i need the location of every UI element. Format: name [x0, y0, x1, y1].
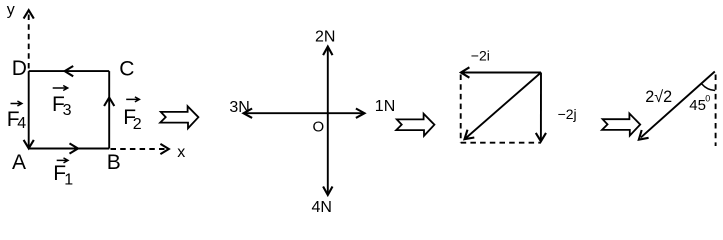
svg-text:D: D	[12, 57, 27, 80]
svg-text:B: B	[107, 151, 121, 174]
arrowhead 4N (down)	[323, 187, 332, 196]
force arrowhead F2 (up) on CB	[104, 98, 114, 107]
svg-text:2√2: 2√2	[645, 88, 672, 106]
dashed bottom side	[461, 142, 541, 144]
svg-text:C: C	[119, 58, 134, 81]
dashed left side	[460, 75, 462, 143]
svg-text:O: O	[313, 119, 325, 136]
svg-text:A: A	[12, 151, 26, 174]
vector overbar of F2	[126, 97, 139, 102]
square side DC	[29, 70, 110, 72]
x-axis dashed line	[111, 148, 167, 150]
svg-text:1N: 1N	[375, 98, 395, 115]
vector overbar of F4	[11, 101, 22, 106]
cross vertical line	[327, 48, 329, 195]
vector -2i arrow (top, leftward)	[463, 72, 542, 74]
x-axis arrowhead	[160, 144, 168, 154]
svg-text:2N: 2N	[315, 28, 335, 45]
svg-text:y: y	[7, 2, 15, 19]
resultant vector 2sqrt2 (diagonal, down-left)	[641, 72, 715, 138]
block arrow 3	[602, 114, 640, 136]
force arrowhead F1 (right) on AB	[70, 143, 79, 153]
y-axis arrowhead	[24, 10, 34, 18]
force arrowhead F4 (down) on DA	[24, 140, 34, 148]
square side DA	[28, 71, 30, 148]
vector overbar of F1	[57, 158, 68, 163]
block arrow 2	[396, 114, 434, 136]
force arrowhead F3 (left) on DC	[65, 66, 74, 76]
cross horizontal line	[245, 112, 364, 114]
svg-text:3: 3	[63, 102, 72, 119]
square side AB	[29, 148, 110, 150]
svg-text:4: 4	[17, 115, 26, 132]
svg-text:0: 0	[705, 94, 710, 104]
arrowhead 1N (right)	[356, 109, 365, 118]
y-axis dashed line	[28, 12, 30, 69]
arrowhead 3N (left)	[244, 109, 253, 118]
square side CB	[108, 71, 110, 148]
svg-text:−2i: −2i	[471, 47, 490, 63]
svg-text:−2j: −2j	[558, 106, 577, 122]
vector -2j arrow (right, downward)	[540, 73, 542, 140]
svg-text:2: 2	[133, 116, 142, 133]
resultant diagonal arrow	[466, 73, 541, 139]
angle arc 45 deg	[702, 84, 715, 91]
svg-text:x: x	[177, 144, 185, 161]
vector overbar of F3	[53, 86, 68, 91]
svg-text:3N: 3N	[229, 99, 249, 116]
block arrow 1	[160, 106, 198, 128]
svg-text:4N: 4N	[312, 199, 332, 216]
svg-text:45: 45	[689, 97, 706, 114]
svg-text:1: 1	[64, 171, 73, 188]
arrowhead 2N (up)	[323, 47, 332, 56]
dashed vertical reference line	[715, 75, 717, 147]
